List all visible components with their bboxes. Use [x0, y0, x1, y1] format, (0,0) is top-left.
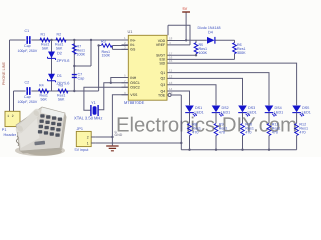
svg-text:P1: P1	[2, 128, 7, 132]
svg-text:LED1: LED1	[221, 111, 230, 115]
ground	[106, 146, 118, 151]
R10 zig	[241, 124, 245, 136]
junction J	[195, 54, 197, 56]
junction K	[180, 142, 182, 144]
svg-text:1: 1	[87, 141, 89, 145]
wire zener column	[51, 40, 53, 91]
wire divider column	[73, 40, 75, 91]
wire VDD 5V	[167, 12, 186, 41]
wire pin5 step	[111, 78, 129, 83]
wire GS stub	[113, 46, 129, 50]
svg-text:LED1: LED1	[274, 111, 283, 115]
svg-text:56K: 56K	[58, 97, 65, 101]
wire rail2 phone line bottom	[14, 90, 99, 92]
svg-text:GS: GS	[130, 48, 136, 52]
wire R5 leads	[195, 40, 197, 55]
wire StD to DS5	[167, 63, 297, 105]
wire branch tap to rail1	[74, 40, 91, 66]
diode D4 1N4148	[207, 37, 215, 44]
res lead	[268, 136, 270, 150]
svg-text:12: 12	[169, 75, 173, 79]
svg-text:100K: 100K	[199, 51, 208, 55]
junction G	[110, 82, 112, 84]
wire VSS to ground	[112, 95, 128, 146]
LED DS1	[185, 106, 194, 113]
svg-text:5V input: 5V input	[75, 148, 90, 152]
junction E	[73, 90, 75, 92]
svg-text:100pF, 250V: 100pF, 250V	[18, 100, 38, 104]
junction D	[73, 65, 75, 67]
LED DS4	[265, 106, 274, 113]
LED lead	[189, 113, 191, 124]
svg-text:100K: 100K	[77, 52, 86, 56]
wire bottom rail	[181, 149, 296, 151]
svg-text:DS5: DS5	[302, 106, 309, 110]
telephone illustration	[15, 107, 67, 156]
svg-text:470: 470	[272, 130, 278, 134]
svg-text:D1: D1	[57, 73, 62, 78]
R7 zig	[73, 44, 77, 54]
svg-text:DS1: DS1	[195, 106, 202, 110]
svg-text:INH: INH	[130, 76, 137, 80]
svg-text:2: 2	[12, 114, 14, 118]
LED DS2	[212, 106, 221, 113]
LED lead	[296, 113, 298, 124]
svg-text:IN-: IN-	[130, 43, 136, 47]
svg-text:470: 470	[192, 130, 198, 134]
wire JP1 pin2 to gnd node	[96, 136, 113, 138]
svg-text:MT8870DE: MT8870DE	[124, 100, 145, 105]
svg-text:D4: D4	[208, 30, 213, 34]
connector JP1 5V input	[76, 131, 91, 146]
svg-text:OSC2: OSC2	[130, 86, 140, 90]
R4 zig	[58, 89, 68, 93]
svg-text:56K: 56K	[41, 97, 48, 101]
LED DS5	[292, 106, 301, 113]
pin TOE bubble	[168, 94, 171, 97]
svg-text:470: 470	[245, 130, 251, 134]
wire IN- riser	[98, 46, 100, 92]
R11 zig	[267, 124, 271, 136]
svg-text:470: 470	[299, 130, 305, 134]
res lead	[296, 136, 298, 150]
connector P1 Header 2	[5, 111, 20, 126]
junction C	[90, 39, 92, 41]
svg-text:1: 1	[7, 114, 9, 118]
svg-text:StD: StD	[159, 61, 165, 65]
svg-text:U1: U1	[128, 29, 133, 34]
svg-text:13: 13	[169, 81, 173, 85]
R3 zig	[39, 89, 49, 93]
crystal Y1	[91, 105, 98, 116]
R150K zig	[101, 44, 112, 48]
R1 zig	[40, 38, 50, 42]
svg-text:OSC1: OSC1	[130, 81, 140, 85]
wire VREF loop	[167, 25, 190, 45]
svg-text:2: 2	[87, 135, 89, 139]
res lead	[215, 136, 217, 150]
svg-text:D2: D2	[57, 51, 62, 56]
svg-text:VDD: VDD	[158, 39, 166, 43]
svg-text:Header 2: Header 2	[4, 133, 20, 137]
svg-text:Cap: Cap	[78, 76, 85, 80]
wire OSC2 to crystal	[84, 87, 128, 110]
svg-text:Q1: Q1	[161, 71, 166, 75]
wire left drop to P1 pin1	[9, 40, 11, 111]
svg-text:R5: R5	[59, 84, 64, 88]
R2 zig	[56, 38, 66, 42]
wire R6 leads	[234, 40, 236, 59]
capacitor C1	[27, 36, 30, 43]
svg-text:R3: R3	[101, 40, 106, 44]
wire rail1 phone line top	[10, 39, 129, 41]
svg-text:300K: 300K	[237, 51, 246, 55]
svg-text:TOE: TOE	[158, 93, 166, 97]
power +5V	[182, 11, 190, 13]
junction L2	[215, 149, 217, 151]
svg-text:Y1: Y1	[91, 100, 96, 105]
svg-text:JP1: JP1	[77, 127, 84, 131]
wire Q2 to DS3	[167, 78, 243, 105]
svg-text:R4: R4	[39, 84, 44, 88]
svg-text:DS3: DS3	[248, 106, 255, 110]
svg-text:Diode 1N4148: Diode 1N4148	[198, 26, 221, 30]
svg-text:VREF: VREF	[156, 43, 165, 47]
junction L4	[268, 149, 270, 151]
svg-text:C1: C1	[25, 29, 30, 33]
svg-text:18: 18	[169, 37, 173, 41]
svg-text:ZPY5.6: ZPY5.6	[57, 58, 70, 63]
LED lead	[242, 113, 244, 124]
zener diode D1	[48, 74, 55, 81]
svg-text:VSS: VSS	[130, 93, 138, 97]
junction A	[50, 39, 52, 41]
wire Q3 to DS2	[167, 85, 216, 106]
res lead	[189, 136, 191, 150]
svg-text:C2: C2	[25, 81, 30, 85]
svg-text:IN+: IN+	[130, 38, 136, 42]
op-amp U1 MT8870DE body	[128, 35, 167, 100]
svg-text:Q3: Q3	[161, 83, 166, 87]
capacitor C2	[27, 87, 30, 94]
junction B	[73, 39, 75, 41]
R6 zig	[233, 43, 237, 54]
svg-text:DS4: DS4	[275, 106, 282, 110]
svg-text:LED1: LED1	[195, 111, 204, 115]
R9 zig	[214, 124, 218, 136]
svg-text:470: 470	[219, 130, 225, 134]
svg-text:Electronics-DIY.com: Electronics-DIY.com	[116, 114, 297, 137]
wire diode rail	[186, 39, 234, 41]
IC left pin stubs	[122, 40, 129, 95]
junction I	[185, 39, 187, 41]
svg-text:LED1: LED1	[302, 111, 311, 115]
junction H	[111, 136, 113, 138]
svg-text:100pF, 250V: 100pF, 250V	[18, 49, 38, 53]
svg-text:XTAL 3.58 MHz: XTAL 3.58 MHz	[74, 115, 102, 120]
LED DS3	[238, 106, 247, 113]
wire StGT	[167, 54, 196, 56]
LED lead	[268, 113, 270, 124]
wire JP1 pin1 to LED return	[96, 142, 182, 144]
wire OSC1 to crystal	[98, 83, 128, 110]
junction F	[97, 44, 99, 46]
junction L1	[188, 149, 190, 151]
zener diode D2	[48, 52, 55, 59]
svg-text:DS2: DS2	[222, 106, 229, 110]
svg-text:10: 10	[169, 91, 173, 95]
R5 zig	[194, 43, 198, 54]
svg-text:5V: 5V	[183, 6, 188, 11]
svg-text:R1: R1	[41, 33, 46, 37]
wire ESt	[167, 58, 235, 60]
svg-text:R2: R2	[57, 33, 62, 37]
capacitor C7 divider	[72, 75, 77, 78]
svg-text:11: 11	[169, 69, 172, 73]
wire Q1 to DS4	[167, 73, 269, 106]
res lead	[242, 136, 244, 150]
svg-text:150K: 150K	[102, 54, 111, 58]
svg-text:15: 15	[169, 59, 173, 63]
LED lead	[215, 113, 217, 124]
R12 zig	[295, 124, 299, 136]
wire TOE drop	[167, 95, 181, 150]
wire IN- feedback	[99, 45, 129, 47]
wire Q4 to DS1	[167, 91, 190, 105]
svg-text:Cap: Cap	[24, 44, 31, 48]
svg-text:LED1: LED1	[248, 111, 257, 115]
svg-text:PHONE LINE: PHONE LINE	[2, 62, 6, 85]
junction L3	[241, 149, 243, 151]
R8 zig	[188, 124, 192, 136]
svg-text:Q2: Q2	[161, 77, 166, 81]
svg-text:56K: 56K	[42, 46, 49, 50]
svg-text:Cap: Cap	[24, 95, 31, 99]
wire rail2 drop to P1 pin2	[13, 91, 15, 111]
